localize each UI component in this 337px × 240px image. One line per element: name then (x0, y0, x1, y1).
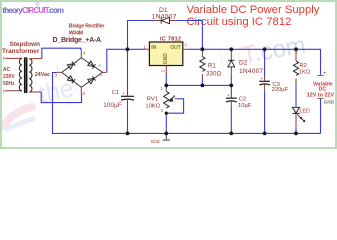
capacitor C3 top pin stub (264, 78, 266, 81)
wire: D2 bottom to mid rail (230, 75, 232, 86)
capacitor C3 top plate (259, 80, 270, 82)
regulator U1 body (149, 42, 182, 66)
diode D2 pin stubs (230, 49, 232, 75)
svg-text:IN: IN (151, 45, 156, 51)
wire: mid rail (IC GND node to C2/D2 node) (166, 84, 231, 86)
svg-text:Gnd: Gnd (151, 139, 160, 144)
LED D3 emission arrow shafts (297, 114, 304, 121)
LED D3 symbol (292, 107, 299, 113)
LED D3 emission arrow heads (300, 117, 306, 122)
wire: C1 branch from input node to ground rail (127, 49, 129, 133)
capacitor C2 top plate (226, 97, 237, 99)
potentiometer RV1 zigzag (164, 91, 169, 108)
svg-text:10µF: 10µF (238, 103, 252, 109)
diode D2 symbol (228, 60, 235, 67)
bridge diode top-right (88, 61, 96, 69)
LED D3 bottom pin stub (295, 113, 297, 127)
capacitor C1 top plate (121, 95, 134, 97)
junction J2 (OUT rail / D1 / R1) (201, 47, 205, 51)
potentiometer RV1 wiper arrow shaft (170, 96, 175, 100)
watermark swoosh blue (7, 119, 33, 129)
bridge diode bottom-left (67, 76, 75, 84)
resistor R2 top pin stub (295, 49, 297, 61)
bridge diode bottom-right (88, 76, 96, 84)
junction J3 (OUT rail / D2) (229, 47, 233, 51)
svg-text:2: 2 (161, 69, 166, 72)
svg-text:Transformer: Transformer (2, 48, 40, 55)
svg-text:RV1: RV1 (147, 96, 158, 102)
pin number 2 (GND, rotated) (161, 69, 166, 72)
bridge diode top-left (67, 61, 75, 69)
svg-text:AC: AC (3, 67, 11, 73)
junction J5 (OUT rail / R2) (294, 47, 298, 51)
potentiometer RV1 wiper arrow head (168, 98, 173, 102)
svg-text:GND: GND (324, 100, 335, 105)
capacitor C2 bottom plate (curved) (226, 101, 237, 102)
junction J4 (OUT rail / C3) (263, 47, 267, 51)
svg-text:4: 4 (83, 51, 86, 56)
svg-text:-: - (57, 66, 59, 71)
junction J10 (ground rail / C1) (126, 132, 130, 136)
resistor R1 zigzag (200, 57, 205, 72)
svg-text:100µF: 100µF (103, 102, 122, 109)
junction J6 (IC GND / RV1 / mid wire) (164, 84, 168, 88)
potentiometer RV1 top pin stub (165, 89, 167, 92)
svg-text:P: P (3, 56, 6, 61)
svg-text:C1: C1 (112, 90, 119, 96)
svg-text:+: + (260, 77, 263, 82)
junction J12 (ground rail / C2) (229, 132, 233, 136)
capacitor C2 bottom pin stub (230, 102, 232, 107)
svg-text:3: 3 (161, 108, 164, 113)
svg-text:Bridge Rectifier: Bridge Rectifier (69, 24, 105, 30)
resistor R2 zigzag (293, 61, 298, 76)
watermark text theo... (diagonal, bottom-left) (36, 71, 89, 109)
transformer TR1 secondary coil (29, 59, 32, 92)
svg-text:3: 3 (184, 43, 187, 48)
svg-text:+: + (323, 70, 327, 77)
wire: bridge plus corner up and right to IC IN (107, 49, 144, 72)
wire: C3 branch from output rail to ground rail (264, 49, 266, 133)
wire: transformer secondary bottom to bridge AC bottom corner (41, 92, 81, 103)
svg-text:D_Bridge_+A-A: D_Bridge_+A-A (53, 36, 102, 44)
junction J1 (bridge+/D1/C1/IC-IN node) (126, 47, 130, 51)
border frame (1, 1, 336, 148)
transformer TR1 secondary pins (29, 59, 42, 92)
svg-text:230V: 230V (3, 74, 15, 80)
svg-text:1KΩ: 1KΩ (299, 69, 311, 75)
capacitor C3 bottom plate (curved) (259, 84, 270, 85)
svg-text:Stepdown: Stepdown (10, 41, 41, 48)
diode D1 pin stubs (155, 20, 176, 22)
svg-text:1: 1 (160, 86, 163, 91)
wire: D1 bypass branch over the IC (128, 21, 203, 50)
watermark swoosh pink (3, 107, 32, 126)
svg-text:©: © (36, 1, 40, 8)
junction J14 (ground rail / LED) (294, 132, 298, 136)
wire: C2 branch to ground rail (230, 85, 232, 133)
wire: IC GND pin down to RV1 top (165, 74, 167, 89)
svg-text:D2: D2 (239, 60, 248, 67)
svg-text:R1: R1 (208, 63, 216, 69)
svg-text:330Ω: 330Ω (206, 72, 222, 78)
svg-text:12V to 22V: 12V to 22V (307, 92, 335, 98)
wire: R1 bottom to mid rail (201, 79, 203, 86)
watermark text tail ...UIT.com (diagonal) (216, 32, 307, 74)
resistor R2 bottom pin stub (295, 79, 297, 85)
bridge rectifier BR1 diamond outline (62, 58, 103, 87)
svg-text:OUT: OUT (170, 45, 181, 51)
svg-text:R2: R2 (299, 63, 306, 69)
svg-text:C2: C2 (239, 97, 246, 103)
junction J13 (ground rail / C3) (263, 132, 267, 136)
svg-text:GND: GND (163, 53, 169, 65)
svg-text:IC 7812: IC 7812 (160, 37, 181, 43)
capacitor C1 bottom pin stub (127, 100, 129, 107)
svg-text:10KΩ: 10KΩ (145, 104, 160, 110)
wire: transformer secondary top to bridge AC top corner (42, 48, 81, 58)
transformer TR1 primary pins P and N (6, 58, 22, 90)
junction J8 (D2 bottom / C2 / mid wire) (229, 84, 233, 88)
junction J11 (ground rail / RV1 / Gnd symbol) (164, 132, 168, 136)
LED D3 top pin stub (295, 106, 297, 109)
junction J9 (RV1 pin3 / wiper loop) (165, 112, 168, 115)
bridge rectifier BR1 corner pin stubs (56, 50, 107, 93)
wire: GND output terminal down to ground rail (320, 99, 322, 134)
wire: RV1 wiper loop to RV1 pin 3 (166, 99, 183, 113)
ground symbol (163, 133, 170, 140)
svg-text:N: N (3, 89, 6, 94)
svg-text:220µF: 220µF (272, 87, 289, 93)
svg-text:1N4007: 1N4007 (152, 14, 177, 21)
svg-text:LED: LED (300, 109, 310, 115)
svg-text:2: 2 (173, 94, 176, 99)
transformer TR1 primary coil (19, 58, 22, 91)
pin label GND (rotated) (163, 53, 169, 65)
wire: RV1 bottom to ground rail (165, 116, 167, 133)
svg-text:24Vac: 24Vac (35, 72, 51, 78)
svg-text:50Hz: 50Hz (3, 81, 15, 87)
resistor R1 top pin stub (201, 49, 203, 56)
capacitor C1 bottom plate (curved) (121, 99, 134, 100)
output + terminal tick (317, 74, 323, 76)
wire: bridge minus corner down to ground rail and bottom ground rail (53, 73, 321, 134)
potentiometer RV1 bottom pin stub (165, 111, 167, 116)
svg-text:1N4007: 1N4007 (239, 68, 263, 75)
svg-text:Variable DC Power Supply: Variable DC Power Supply (187, 4, 320, 16)
svg-text:+: + (122, 92, 125, 97)
wire: IC OUT to top output rail and + terminal (189, 49, 321, 75)
svg-text:+: + (98, 63, 101, 68)
output GND terminal tick (317, 97, 323, 99)
transformer TR1 core (25, 57, 27, 93)
potentiometer RV1 wiper pin stub (175, 98, 178, 100)
svg-text:+: + (227, 94, 230, 99)
capacitor C3 bottom pin stub (264, 85, 266, 92)
resistor R1 bottom pin stub (201, 74, 203, 78)
svg-text:theoryCIRCUIT.com: theoryCIRCUIT.com (2, 6, 64, 15)
regulator U1 pin stubs (144, 49, 189, 73)
junction J7 (R1 bottom / mid wire) (201, 84, 205, 88)
diode D1 symbol (161, 17, 169, 23)
wire: R2 to LED to ground rail (295, 84, 297, 133)
